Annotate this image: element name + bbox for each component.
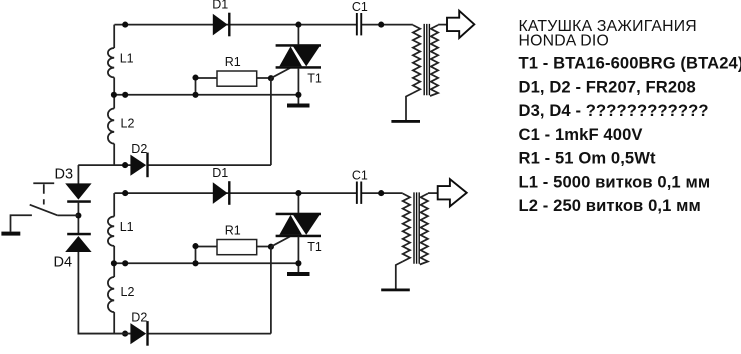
wire L1 upper lead (top): [113, 25, 115, 48]
wire gate diagonal (top): [271, 68, 290, 78]
switch actuator bar: [33, 182, 54, 184]
inductor L2 (bottom): [108, 277, 114, 312]
wire triac MT1 lead (top): [297, 68, 299, 104]
triac T1 (bottom): [276, 213, 321, 238]
ground below transformer (top): [391, 120, 420, 123]
wire primary to ground (top): [406, 93, 413, 120]
wire triac MT1 lead (bottom): [297, 237, 299, 273]
svg-text:D1, D2 - FR207, FR208: D1, D2 - FR207, FR208: [519, 77, 696, 96]
wire L2 lower lead (bottom): [113, 312, 115, 334]
wire between L1 and L2 (top): [113, 77, 115, 108]
ground at switch: [1, 232, 20, 236]
node C1 output dot (top): [378, 22, 384, 28]
resistor R1 (top): [195, 78, 197, 95]
transformer core (bottom): [414, 192, 419, 263]
wire transformer to output arrow (top): [438, 24, 447, 26]
wire D2 rail (bottom): [78, 333, 271, 335]
transformer primary winding (top): [413, 25, 420, 93]
node gate dot (bottom): [268, 244, 274, 250]
svg-text:C1 - 1mkF 400V: C1 - 1mkF 400V: [519, 125, 643, 144]
wire C1 to transformer (top): [362, 24, 413, 26]
transformer secondary winding (bottom): [420, 194, 428, 265]
svg-text:C1: C1: [352, 168, 368, 182]
switch lever: [30, 205, 58, 216]
svg-text:R1: R1: [225, 223, 241, 237]
ground below triac (top): [287, 104, 310, 108]
wire top rail (top): [114, 24, 356, 26]
svg-text:D1: D1: [212, 0, 228, 12]
wire L1 upper lead (bottom): [113, 193, 115, 216]
switch actuator dashed link: [43, 184, 45, 204]
inductor L1 (bottom): [108, 217, 114, 246]
node triac mid-rail dot (top): [295, 92, 301, 98]
ground below transformer (bottom): [381, 289, 410, 292]
wire between L1 and L2 (bottom): [113, 246, 115, 277]
switch fixed contact wire: [11, 215, 32, 231]
diode D3: [65, 183, 91, 199]
node gate dot (top): [268, 75, 274, 81]
diode D2 (top): [130, 155, 146, 176]
wire gate drop to D2 rail (top): [270, 78, 272, 165]
diode D2 (bottom): [130, 323, 146, 344]
svg-text:D3, D4 - ????????????: D3, D4 - ????????????: [519, 101, 709, 120]
output arrow (top): [447, 11, 474, 38]
node triac mid-rail dot (bottom): [295, 260, 301, 266]
output arrow (bottom): [438, 179, 467, 206]
capacitor C1 (bottom): [356, 182, 358, 204]
svg-text:HONDA DIO: HONDA DIO: [519, 33, 609, 50]
svg-text:D4: D4: [54, 255, 73, 271]
resistor R1 (bottom): [195, 246, 197, 263]
node R1 mid-rail dot (bottom): [192, 260, 198, 266]
capacitor C1 (top): [356, 13, 358, 35]
diode D1 (top): [213, 14, 228, 36]
node R1 mid-rail dot (top): [192, 92, 198, 98]
node mid rail dot 2 (bottom): [122, 260, 128, 266]
wire top rail (bottom): [114, 192, 356, 194]
transformer secondary winding (top): [430, 25, 438, 96]
node R1 left dot (bottom): [192, 243, 198, 249]
wire D3 to D4: [77, 202, 79, 234]
wire gate diagonal (bottom): [271, 237, 290, 247]
svg-text:T1: T1: [307, 71, 322, 85]
svg-text:D1: D1: [212, 166, 228, 180]
node mid rail dot 2 (top): [122, 92, 128, 98]
svg-text:L1: L1: [120, 220, 134, 234]
wire D3 anode lead: [77, 165, 79, 184]
node triac top dot (top): [295, 22, 301, 28]
inductor L1 (top): [108, 48, 114, 77]
node R1 left dot (top): [192, 75, 198, 81]
wire gate drop to D2 rail (bottom): [270, 247, 272, 334]
node D2 anode dot (bottom): [122, 331, 128, 337]
transformer primary winding (bottom): [403, 194, 410, 262]
svg-text:L2: L2: [121, 116, 135, 130]
wire triac MT2 lead (bottom): [297, 193, 299, 213]
triac T1 (top): [276, 44, 321, 68]
wire D4 to bottom rail: [78, 252, 130, 334]
wire C1 to transformer (bottom): [362, 192, 403, 194]
wire primary to ground (bottom): [396, 262, 403, 289]
svg-text:L1: L1: [120, 52, 134, 66]
node L1 top junction dot (top): [122, 22, 128, 28]
diode D4: [67, 233, 91, 236]
wire L2 lower lead (top): [113, 144, 115, 166]
wire D2 rail (top): [78, 164, 271, 166]
svg-text:L2 - 250 витков 0,1 мм: L2 - 250 витков 0,1 мм: [519, 196, 701, 215]
inductor L2 (top): [108, 109, 114, 144]
node mid rail coil dot (bottom): [111, 260, 117, 266]
wire transformer to output arrow (bottom): [428, 192, 438, 194]
svg-text:D2: D2: [131, 142, 147, 156]
svg-text:D3: D3: [55, 167, 74, 183]
wire switch to junction: [58, 214, 79, 216]
node C1 output dot (bottom): [378, 190, 384, 196]
svg-text:R1 - 51 Om 0,5Wt: R1 - 51 Om 0,5Wt: [519, 149, 657, 168]
svg-text:D2: D2: [131, 311, 147, 325]
svg-text:L2: L2: [121, 285, 135, 299]
svg-text:R1: R1: [225, 55, 241, 69]
svg-text:T1 - BTA16-600BRG (BTA24): T1 - BTA16-600BRG (BTA24): [519, 54, 741, 73]
svg-text:C1: C1: [352, 0, 368, 14]
wire mid rail (top): [114, 94, 299, 96]
svg-text:T1: T1: [307, 240, 322, 254]
node L1 top junction dot (bottom): [122, 190, 128, 196]
node switch junction dot: [75, 212, 81, 218]
wire mid rail (bottom): [114, 262, 299, 264]
svg-text:L1 - 5000 витков 0,1 мм: L1 - 5000 витков 0,1 мм: [519, 172, 711, 191]
node triac top dot (bottom): [295, 190, 301, 196]
ground below triac (bottom): [287, 272, 310, 276]
wire triac MT2 lead (top): [297, 25, 299, 45]
transformer core (top): [424, 24, 429, 95]
node D2 anode dot (top): [122, 162, 128, 168]
diode D1 (bottom): [213, 182, 228, 204]
node mid rail coil dot (top): [111, 92, 117, 98]
